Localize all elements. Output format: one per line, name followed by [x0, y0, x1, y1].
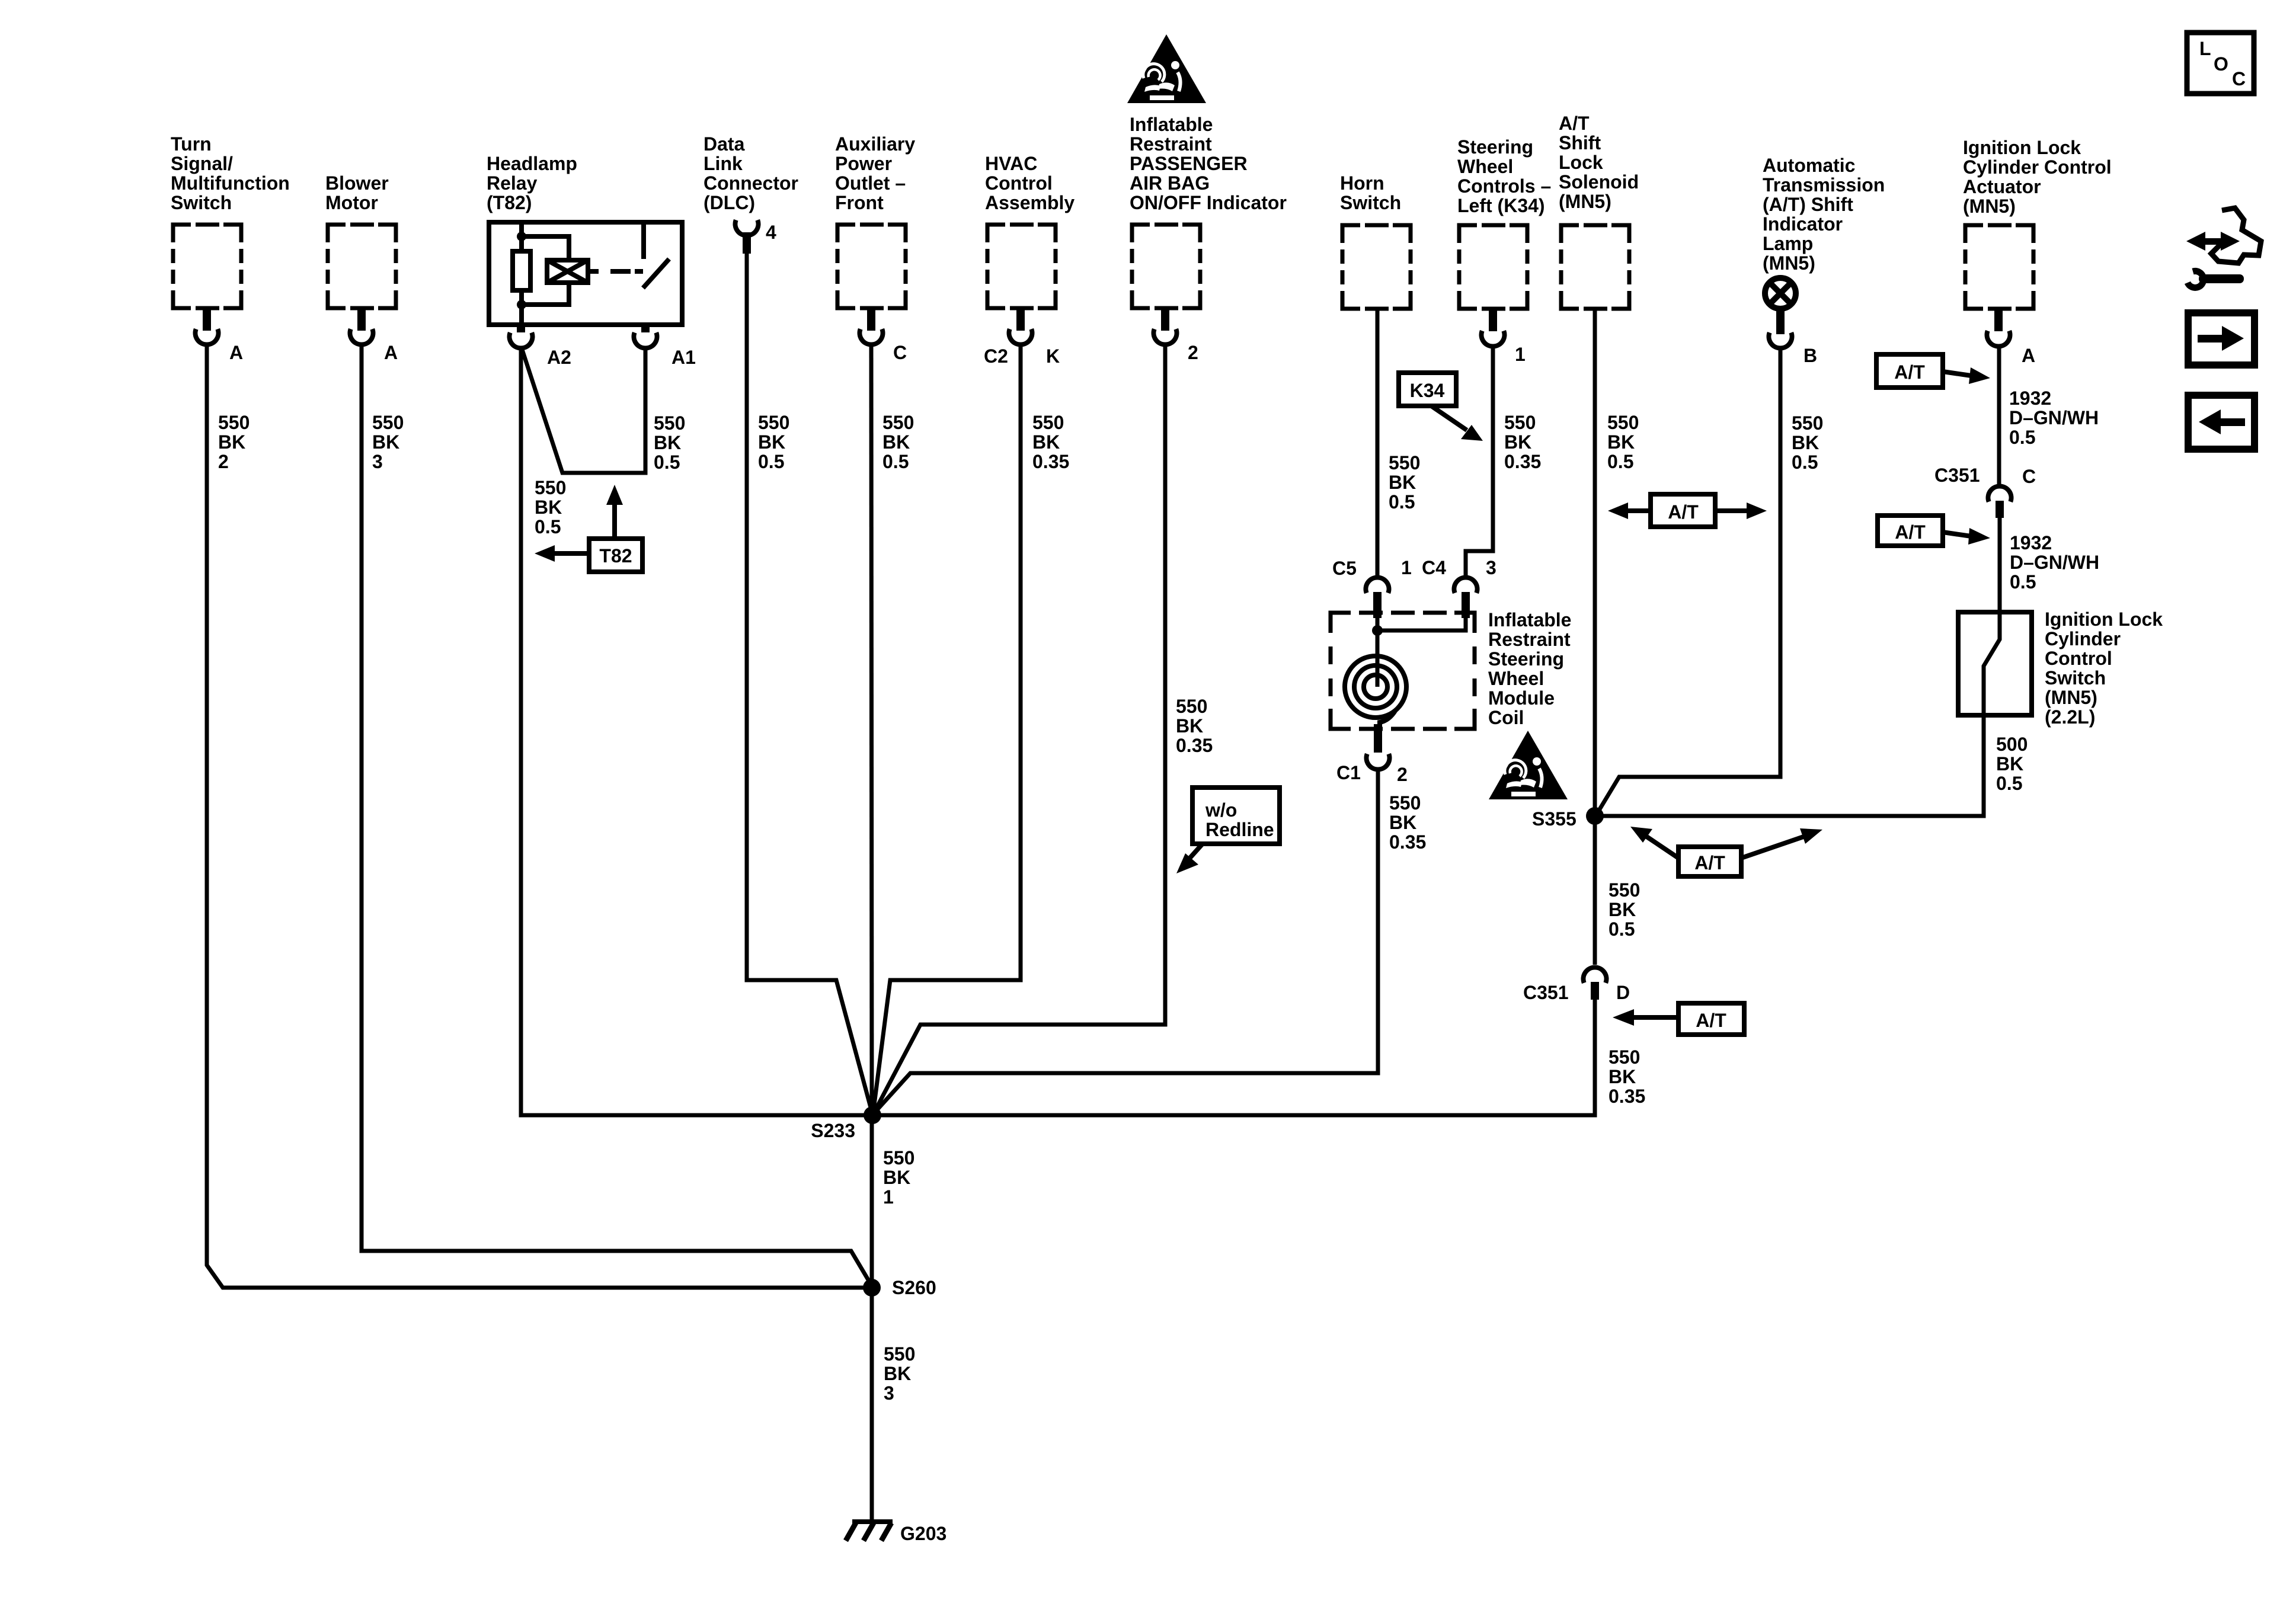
connector C (aux) pin stub	[867, 310, 875, 331]
svg-text:550: 550	[535, 477, 566, 498]
svg-text:BK: BK	[883, 1167, 910, 1188]
svg-text:BK: BK	[1607, 431, 1635, 453]
svg-text:C5: C5	[1332, 558, 1357, 579]
dash panel icon outline	[2211, 208, 2261, 263]
svg-text:Steering: Steering	[1457, 136, 1533, 158]
svg-text:550: 550	[1609, 879, 1640, 901]
label Inflatable Restraint PASSENGER AIR BAG ON/OFF Indicator	[1130, 114, 1287, 213]
svg-text:D–GN/WH: D–GN/WH	[2010, 552, 2099, 573]
pin A2 stub	[517, 325, 525, 332]
svg-text:550: 550	[1389, 792, 1421, 814]
C1 stub	[1374, 724, 1382, 753]
connector A2 cup	[510, 332, 533, 348]
connector 1 (steering) pin stub	[1489, 311, 1497, 331]
label 550 BK 1	[883, 1147, 914, 1208]
dash icon wrench	[2188, 271, 2244, 287]
label 1932 D-GN/WH 0.5 (upper)	[2009, 388, 2099, 448]
svg-text:Signal/: Signal/	[171, 153, 233, 174]
wire dot to relay coil top	[522, 236, 569, 261]
svg-text:BK: BK	[372, 431, 399, 453]
wire turn signal to S260	[207, 345, 872, 1288]
svg-text:BK: BK	[882, 431, 910, 453]
label Ignition Lock Cylinder Control Actuator (MN5)	[1963, 137, 2112, 217]
svg-text:2: 2	[218, 451, 229, 472]
wire C4 into coil junction	[1377, 618, 1466, 630]
svg-text:Auxiliary: Auxiliary	[835, 133, 915, 155]
A/T reference box (C351 C)	[1878, 516, 1943, 546]
wire lamp to S355	[1597, 349, 1780, 814]
junction dot relay bottom	[517, 300, 526, 309]
svg-text:550: 550	[372, 412, 404, 433]
svg-text:0.35: 0.35	[1609, 1086, 1645, 1107]
svg-text:Motor: Motor	[325, 192, 378, 213]
wire steering controls to coil C4	[1466, 347, 1493, 578]
label Data Link Connector (DLC)	[703, 133, 798, 213]
svg-text:Multifunction: Multifunction	[171, 172, 290, 194]
svg-text:A/T: A/T	[1668, 501, 1699, 523]
wire S260 to ground	[870, 1288, 874, 1521]
svg-text:Outlet –: Outlet –	[835, 172, 906, 194]
svg-text:550: 550	[1609, 1046, 1640, 1068]
svg-text:Switch: Switch	[2045, 667, 2106, 689]
svg-text:A1: A1	[671, 347, 696, 368]
indicator lamp symbol	[1765, 278, 1796, 309]
label HVAC Control Assembly	[985, 153, 1075, 213]
A/T shift lock solenoid box (dashed)	[1561, 225, 1629, 309]
svg-text:Indicator: Indicator	[1763, 213, 1843, 235]
connector K (HVAC) cup	[1009, 329, 1032, 344]
svg-text:BK: BK	[758, 431, 785, 453]
svg-text:BK: BK	[1389, 472, 1416, 493]
junction S260	[863, 1279, 881, 1297]
connector A1 cup	[634, 332, 657, 348]
svg-text:BK: BK	[1032, 431, 1060, 453]
connector 2 (air bag) pin stub	[1161, 310, 1169, 331]
A/T double arrow right	[1715, 502, 1767, 519]
svg-text:A: A	[229, 342, 243, 363]
svg-text:A/T: A/T	[1895, 521, 1926, 543]
label Headlamp Relay (T82)	[487, 153, 577, 213]
svg-text:BK: BK	[884, 1363, 911, 1384]
K34 arrow	[1431, 406, 1483, 441]
svg-text:ON/OFF Indicator: ON/OFF Indicator	[1130, 192, 1287, 213]
svg-text:Connector: Connector	[703, 172, 798, 194]
connector 1 (steering) cup	[1482, 331, 1505, 346]
label Blower Motor	[325, 172, 389, 213]
svg-text:Left (K34): Left (K34)	[1457, 195, 1545, 216]
connector C351 C dome	[1988, 486, 2012, 501]
junction S233	[864, 1106, 881, 1124]
svg-text:550: 550	[1792, 412, 1823, 434]
svg-text:PASSENGER: PASSENGER	[1130, 153, 1248, 174]
svg-text:D: D	[1616, 982, 1630, 1003]
svg-text:0.5: 0.5	[654, 452, 680, 473]
relay T82 box	[489, 222, 682, 325]
A/T double arrow left	[1608, 502, 1651, 519]
clockspring coil spiral	[1345, 656, 1406, 725]
svg-text:Power: Power	[835, 153, 892, 174]
svg-text:S233: S233	[811, 1120, 855, 1141]
svg-text:(MN5): (MN5)	[1963, 196, 2016, 217]
svg-text:Assembly: Assembly	[985, 192, 1075, 213]
label 550 BK 3	[884, 1343, 915, 1404]
A/T arrow right	[1943, 367, 1990, 384]
wire C1 to S233	[875, 770, 1378, 1112]
label 550 BK 0.5 (aux)	[882, 412, 914, 472]
label 550 BK 0.5 (S355)	[1609, 879, 1640, 940]
svg-text:Cylinder: Cylinder	[2045, 628, 2121, 649]
A/T arrow up-left	[1630, 827, 1678, 858]
svg-text:0.5: 0.5	[2009, 427, 2035, 448]
svg-text:A/T: A/T	[1559, 113, 1590, 134]
resistor (relay)	[513, 251, 530, 290]
relay coil-side inner wire	[519, 222, 524, 325]
svg-text:4: 4	[766, 222, 776, 243]
svg-text:Ignition Lock: Ignition Lock	[1963, 137, 2081, 158]
svg-text:A: A	[384, 342, 398, 363]
turn signal switch box (dashed)	[173, 225, 241, 308]
svg-text:K34: K34	[1410, 380, 1445, 401]
wire ignition lock switch to S355	[1595, 718, 1984, 816]
forward arrow	[2198, 326, 2244, 351]
label Auxiliary Power Outlet - Front	[835, 133, 915, 213]
connector C1 cup	[1367, 754, 1390, 769]
wire C5 into coil	[1376, 618, 1380, 630]
label 550 BK 0.35 (C351 D)	[1609, 1046, 1645, 1107]
svg-text:Headlamp: Headlamp	[487, 153, 577, 174]
w/o Redline reference box	[1192, 788, 1280, 844]
relay actuation dashed link	[588, 269, 643, 274]
svg-text:Blower: Blower	[325, 172, 389, 194]
svg-text:3: 3	[1486, 557, 1496, 578]
svg-text:Automatic: Automatic	[1763, 155, 1855, 176]
label 550 BK 0.35 (steering)	[1504, 412, 1541, 472]
warning triangle (air bag)	[1127, 34, 1206, 103]
relay coil (box with X)	[547, 260, 588, 283]
wire air bag indicator to S233	[874, 345, 1165, 1112]
coil box (dashed)	[1331, 613, 1475, 729]
label 550 BK 0.5 (A2)	[535, 477, 566, 537]
svg-text:550: 550	[1032, 412, 1064, 433]
svg-text:(MN5): (MN5)	[1559, 191, 1611, 212]
back arrow box	[2188, 395, 2255, 449]
svg-text:BK: BK	[218, 431, 245, 453]
svg-text:AIR BAG: AIR BAG	[1130, 172, 1210, 194]
svg-text:Cylinder Control: Cylinder Control	[1963, 156, 2112, 178]
wire A1 loop to A2	[522, 348, 645, 473]
svg-text:BK: BK	[654, 432, 681, 453]
svg-text:Control: Control	[2045, 648, 2112, 669]
svg-text:BK: BK	[1176, 715, 1203, 737]
connector B (lamp) cup	[1769, 332, 1792, 348]
connector K (HVAC) pin stub	[1016, 310, 1025, 331]
label 550 BK 0.35 (HVAC)	[1032, 412, 1069, 472]
wire solenoid to S355	[1593, 311, 1597, 816]
svg-text:S355: S355	[1532, 808, 1576, 830]
svg-text:HVAC: HVAC	[985, 153, 1037, 174]
connector A (blower) pin stub	[357, 310, 366, 331]
svg-text:(DLC): (DLC)	[703, 192, 755, 213]
svg-text:550: 550	[884, 1343, 915, 1365]
svg-text:BK: BK	[1792, 432, 1819, 453]
A/T arrow up-right	[1741, 828, 1822, 858]
svg-text:T82: T82	[599, 545, 632, 566]
wire C351 C to ignition lock switch	[1998, 518, 2002, 612]
svg-text:C1: C1	[1336, 762, 1361, 783]
svg-text:C351: C351	[1934, 465, 1980, 486]
A/T arrow left (C351 D)	[1613, 1009, 1678, 1026]
svg-text:(MN5): (MN5)	[1763, 252, 1815, 274]
svg-text:550: 550	[1389, 452, 1420, 473]
svg-text:Front: Front	[835, 192, 884, 213]
svg-text:Switch: Switch	[1340, 192, 1401, 213]
wire C351 D to S233	[872, 1000, 1595, 1115]
blower motor box (dashed)	[328, 225, 396, 308]
C351 C stub	[1996, 501, 2004, 518]
LOC letters	[2199, 38, 2246, 89]
svg-text:3: 3	[372, 451, 383, 472]
svg-text:Link: Link	[703, 153, 743, 174]
junction S355	[1586, 807, 1604, 825]
wire A2 down to S233	[521, 348, 872, 1115]
svg-text:(2.2L): (2.2L)	[2045, 706, 2095, 728]
svg-text:BK: BK	[1389, 812, 1416, 833]
svg-text:Transmission: Transmission	[1763, 174, 1885, 196]
svg-text:Inflatable: Inflatable	[1488, 609, 1571, 630]
label Ignition Lock Cylinder Control Switch (MN5) (2.2L)	[2045, 609, 2163, 728]
wire aux outlet to S233	[871, 345, 872, 1115]
LOC reference box	[2187, 33, 2254, 94]
svg-text:Steering: Steering	[1488, 648, 1564, 670]
svg-text:0.5: 0.5	[1996, 773, 2022, 794]
svg-text:O: O	[2214, 53, 2228, 75]
svg-text:Inflatable: Inflatable	[1130, 114, 1213, 135]
wire HVAC to S233	[873, 345, 1021, 1114]
svg-text:Switch: Switch	[171, 192, 232, 213]
svg-text:Solenoid: Solenoid	[1559, 171, 1639, 193]
label Automatic Transmission (A/T) Shift Indicator Lamp (MN5)	[1763, 155, 1885, 274]
svg-text:C: C	[2232, 68, 2246, 89]
label 550 BK 0.5 (DLC)	[758, 412, 789, 472]
svg-text:Coil: Coil	[1488, 707, 1524, 728]
svg-text:A: A	[2022, 345, 2035, 366]
wire blower motor to S260	[362, 345, 872, 1286]
dash icon double arrow	[2186, 232, 2240, 251]
warning triangle (S355)	[1489, 731, 1568, 799]
wire DLC to S233	[747, 254, 872, 1114]
svg-text:550: 550	[883, 1147, 914, 1169]
svg-text:1932: 1932	[2009, 388, 2051, 409]
svg-text:550: 550	[758, 412, 789, 433]
svg-text:550: 550	[1176, 696, 1207, 717]
svg-text:0.5: 0.5	[758, 451, 784, 472]
C5 stub	[1373, 592, 1382, 618]
connector A (turn signal) pin stub	[203, 310, 211, 331]
steering wheel controls box (dashed)	[1459, 225, 1527, 309]
pin A1 stub	[641, 325, 650, 332]
horn switch box (dashed)	[1342, 225, 1411, 309]
svg-text:BK: BK	[1996, 753, 2023, 774]
svg-text:1: 1	[883, 1186, 894, 1208]
w/o Redline arrow	[1176, 844, 1203, 873]
svg-text:C2: C2	[984, 345, 1008, 367]
connector A (actuator) pin stub	[1994, 311, 2003, 331]
wire S355 to C351 D	[1593, 816, 1597, 965]
svg-text:Restraint: Restraint	[1488, 629, 1571, 650]
svg-text:0.5: 0.5	[2010, 571, 2036, 593]
A/T reference box (actuator)	[1876, 354, 1943, 388]
w/o Redline text	[1205, 799, 1274, 840]
svg-text:0.5: 0.5	[1607, 451, 1633, 472]
label 550 BK 3	[372, 412, 404, 472]
svg-text:Controls –: Controls –	[1457, 175, 1551, 197]
svg-text:C: C	[893, 342, 907, 363]
svg-text:Wheel: Wheel	[1488, 668, 1544, 689]
svg-text:A2: A2	[547, 347, 571, 368]
svg-text:0.5: 0.5	[882, 451, 909, 472]
connector C (aux) cup	[860, 329, 883, 344]
svg-text:A/T: A/T	[1894, 361, 1925, 383]
svg-text:0.35: 0.35	[1504, 451, 1541, 472]
connector C5 dome	[1366, 577, 1389, 593]
label Inflatable Restraint Steering Wheel Module Coil	[1488, 609, 1571, 728]
svg-text:0.5: 0.5	[1792, 452, 1818, 473]
DLC connector cup	[736, 220, 759, 235]
svg-text:C: C	[2022, 466, 2036, 487]
lamp pin stub	[1776, 309, 1785, 334]
svg-text:1: 1	[1401, 557, 1412, 578]
svg-text:1: 1	[1515, 344, 1526, 365]
svg-text:Turn: Turn	[171, 133, 212, 155]
connector A (turn signal) cup	[196, 329, 219, 344]
junction dot relay top	[517, 232, 526, 241]
junction dot (coil)	[1372, 625, 1383, 636]
svg-text:0.35: 0.35	[1176, 735, 1213, 756]
svg-text:G203: G203	[900, 1523, 946, 1544]
DLC stub	[743, 232, 751, 254]
svg-text:550: 550	[1504, 412, 1536, 433]
svg-text:0.5: 0.5	[1389, 491, 1415, 513]
wire actuator to C351 C	[1997, 347, 2001, 485]
svg-text:500: 500	[1996, 734, 2028, 755]
svg-text:550: 550	[218, 412, 250, 433]
aux power outlet box (dashed)	[837, 225, 906, 308]
svg-text:Ignition Lock: Ignition Lock	[2045, 609, 2163, 630]
label Steering Wheel Controls - Left (K34)	[1457, 136, 1551, 216]
ignition lock cylinder control switch box	[1958, 612, 2032, 715]
label 550 BK 0.35 (C1)	[1389, 792, 1426, 853]
svg-text:A/T: A/T	[1694, 852, 1725, 873]
T82 reference box	[589, 539, 642, 572]
svg-text:550: 550	[882, 412, 914, 433]
svg-text:550: 550	[1607, 412, 1639, 433]
svg-text:w/o: w/o	[1205, 799, 1237, 821]
label 550 BK 2	[218, 412, 250, 472]
label Horn Switch	[1340, 172, 1401, 213]
svg-text:Relay: Relay	[487, 172, 538, 194]
svg-text:Actuator: Actuator	[1963, 176, 2041, 197]
wire junction to coil center	[1376, 630, 1380, 687]
connector C4 dome	[1454, 577, 1478, 593]
T82 arrow left	[535, 545, 587, 562]
svg-text:BK: BK	[1504, 431, 1531, 453]
svg-text:3: 3	[884, 1382, 894, 1404]
HVAC box (dashed)	[987, 225, 1056, 308]
wire S233 to S260	[870, 1115, 874, 1288]
connector A (actuator) cup	[1987, 331, 2010, 346]
label 550 BK 0.5 (lamp)	[1792, 412, 1823, 473]
A/T reference box (C351 D)	[1678, 1003, 1744, 1035]
label 500 BK 0.5	[1996, 734, 2028, 794]
label Turn Signal/Multifunction Switch	[171, 133, 290, 213]
svg-text:(T82): (T82)	[487, 192, 532, 213]
T82 arrow up	[606, 485, 623, 539]
actuator box (dashed)	[1965, 225, 2033, 309]
back arrow	[2199, 409, 2245, 434]
svg-text:1932: 1932	[2010, 532, 2052, 553]
svg-text:BK: BK	[1609, 1066, 1636, 1087]
svg-text:(A/T) Shift: (A/T) Shift	[1763, 194, 1853, 215]
svg-text:Wheel: Wheel	[1457, 156, 1513, 177]
svg-text:Horn: Horn	[1340, 172, 1384, 194]
svg-text:Restraint: Restraint	[1130, 133, 1212, 155]
svg-text:B: B	[1803, 345, 1817, 366]
C351 D stub	[1591, 982, 1599, 1000]
svg-text:S260: S260	[892, 1277, 936, 1298]
svg-text:Lock: Lock	[1559, 152, 1603, 173]
svg-text:Shift: Shift	[1559, 132, 1601, 153]
svg-text:Redline: Redline	[1205, 819, 1274, 840]
svg-text:D–GN/WH: D–GN/WH	[2009, 407, 2099, 428]
svg-text:Control: Control	[985, 172, 1053, 194]
svg-text:L: L	[2199, 38, 2211, 59]
svg-text:(MN5): (MN5)	[2045, 687, 2097, 708]
svg-text:Data: Data	[703, 133, 745, 155]
A/T reference box (below S355)	[1678, 847, 1741, 876]
svg-text:2: 2	[1397, 764, 1408, 785]
wire dot to relay coil bottom	[522, 281, 569, 305]
C4 stub	[1462, 592, 1470, 618]
label A/T Shift Lock Solenoid (MN5)	[1559, 113, 1639, 212]
wire horn switch to coil C5	[1376, 311, 1380, 578]
connector A (blower) cup	[350, 329, 373, 344]
svg-text:Lamp: Lamp	[1763, 233, 1813, 254]
relay switch blade	[643, 259, 669, 288]
ground G203 symbol	[846, 1522, 893, 1541]
connector C351 D dome	[1584, 967, 1607, 982]
svg-text:Module: Module	[1488, 687, 1555, 709]
svg-text:K: K	[1046, 345, 1060, 367]
label 550 BK 0.5 (horn)	[1389, 452, 1420, 513]
svg-text:BK: BK	[1609, 899, 1636, 920]
svg-text:BK: BK	[535, 497, 562, 518]
svg-text:0.35: 0.35	[1389, 831, 1426, 853]
forward arrow box	[2188, 313, 2255, 365]
A/T arrow right (C351 C)	[1943, 528, 1990, 545]
label 550 BK 0.35 (air bag)	[1176, 696, 1213, 756]
svg-text:0.35: 0.35	[1032, 451, 1069, 472]
label 550 BK 0.5 (solenoid)	[1607, 412, 1639, 472]
svg-text:C4: C4	[1422, 557, 1446, 578]
svg-text:A/T: A/T	[1696, 1010, 1726, 1031]
svg-text:0.5: 0.5	[1609, 918, 1635, 940]
air bag indicator box (dashed)	[1132, 225, 1200, 308]
connector 2 (air bag) cup	[1154, 329, 1177, 344]
A/T reference box (double arrow)	[1651, 494, 1715, 527]
relay switch fixed contact	[641, 222, 646, 259]
svg-text:0.5: 0.5	[535, 516, 561, 537]
label 1932 D-GN/WH 0.5 (lower)	[2010, 532, 2099, 593]
